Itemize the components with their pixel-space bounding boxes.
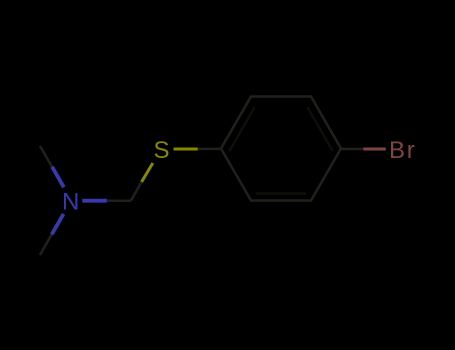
wire ring edge BL-L — [221, 149, 251, 201]
svg-text:S: S — [153, 137, 169, 164]
wire ring edge TL-TR (top) — [251, 95, 311, 98]
wire double bond inner L-TL — [230, 108, 254, 150]
wire N to upper methyl carbon half — [40, 146, 52, 167]
wire ring edge L-TL — [221, 97, 251, 149]
wire S to ring sulfur half — [174, 148, 198, 151]
wire C(ring) to Br carbon half — [341, 148, 363, 151]
wire N to lower methyl carbon half — [40, 234, 52, 255]
wire ring edge BR-BL (bottom) — [251, 199, 311, 202]
wire N to CH2 carbon half — [107, 199, 131, 202]
wire N to CH2 nitrogen half — [82, 199, 107, 203]
wire N to lower methyl nitrogen half — [52, 214, 64, 235]
wire S to CH2 sulfur half — [142, 163, 153, 182]
wire ring edge TR-R — [311, 97, 341, 149]
wire double bond inner BR-BL — [257, 192, 305, 195]
wire ring edge R-BR — [311, 149, 341, 201]
svg-text:N: N — [62, 189, 79, 216]
wire double bond inner TR-R — [308, 108, 332, 150]
svg-text:Br: Br — [389, 137, 415, 164]
benzene ring C1-C6 (carbon bonds, very dark) — [221, 97, 341, 201]
wire S to ring carbon half — [198, 147, 222, 150]
wire C to Br bromine half — [363, 148, 385, 151]
wire S to CH2 carbon half — [131, 182, 142, 201]
wire N to upper methyl nitrogen half — [52, 167, 64, 188]
